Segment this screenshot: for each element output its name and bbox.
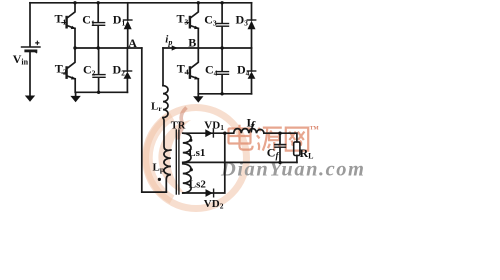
svg-text:TR: TR	[171, 121, 186, 132]
svg-text:Ls1: Ls1	[188, 147, 205, 159]
svg-text:B: B	[188, 35, 196, 49]
svg-text:A: A	[128, 36, 137, 50]
svg-text:Ls2: Ls2	[189, 178, 207, 190]
svg-text:TM: TM	[310, 126, 320, 132]
